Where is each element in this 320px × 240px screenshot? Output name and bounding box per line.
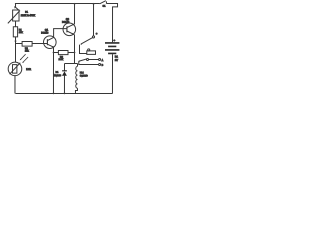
wire pot to R1	[15, 21, 17, 27]
node emitter/R3 right	[74, 52, 76, 54]
wire tee to diode and coil	[64, 62, 77, 64]
svg-text:BC148: BC148	[62, 22, 70, 24]
LDR	[8, 62, 22, 93]
svg-text:BC148: BC148	[41, 32, 49, 34]
wire Q1 collector to Q2 base	[54, 29, 67, 38]
svg-text:C: C	[96, 33, 98, 35]
svg-text:A: A	[102, 59, 104, 62]
wire contact common from rail	[93, 4, 95, 36]
node divider	[15, 40, 17, 42]
svg-text:10K: 10K	[19, 32, 23, 34]
relay coil RL1	[75, 66, 77, 93]
wire node to LDR	[14, 41, 16, 62]
wire R2 to Q1 base	[32, 42, 47, 44]
resistor R1	[13, 27, 17, 37]
relay contact blade 2	[79, 59, 87, 61]
wire Q1 emitter down to ground	[52, 47, 54, 93]
light arrow 2	[23, 57, 28, 62]
terminal A	[99, 59, 101, 61]
svg-text:S1: S1	[103, 6, 106, 8]
node collector rail	[74, 3, 76, 5]
transistor Q1	[44, 36, 57, 49]
contact fixed circle 1	[92, 36, 94, 38]
wire pivot 1	[79, 45, 86, 54]
svg-text:Q1: Q1	[45, 30, 49, 32]
wire R1 bottom to node	[15, 37, 17, 41]
transistor Q2	[63, 23, 76, 36]
node diode ground	[64, 92, 66, 94]
resistor R2	[22, 41, 32, 46]
contact block box	[87, 51, 96, 55]
wire node to R3	[53, 51, 58, 53]
svg-text:6V,1C/O: 6V,1C/O	[80, 75, 88, 77]
terminal B	[99, 64, 101, 66]
switch S1 blade	[100, 1, 106, 4]
wire Q2 collector to rail	[73, 4, 74, 25]
node emitter/R3	[53, 52, 55, 54]
svg-text:LDR: LDR	[26, 69, 31, 71]
svg-text:B: B	[102, 65, 104, 67]
node contact rail	[93, 3, 95, 5]
svg-text:RL1: RL1	[80, 72, 85, 74]
wire Q2 emitter down	[73, 34, 74, 63]
wire top rail right to battery	[106, 4, 117, 43]
svg-text:1N4148: 1N4148	[54, 75, 62, 77]
wire R3 right to emitter line	[68, 52, 75, 54]
potentiometer P1	[8, 3, 20, 23]
wire node to R2	[16, 41, 23, 43]
wire row A	[88, 59, 98, 61]
svg-text:D1: D1	[56, 72, 60, 74]
svg-text:Q2: Q2	[66, 19, 70, 21]
svg-text:6V: 6V	[115, 59, 118, 62]
circle on box	[88, 49, 90, 51]
battery B1	[105, 43, 119, 94]
light arrow 1	[20, 54, 25, 59]
resistor R3	[58, 50, 68, 54]
diode D1	[62, 71, 67, 94]
wire bottom rail	[15, 92, 112, 94]
relay contact blade 1	[81, 38, 93, 45]
wire pivot 2 and row B	[79, 61, 99, 64]
wire top rail left	[15, 2, 100, 4]
svg-text:2.2K: 2.2K	[59, 59, 64, 61]
svg-text:+: +	[114, 39, 116, 42]
svg-text:220K & 470K: 220K & 470K	[21, 14, 35, 17]
svg-text:10K: 10K	[25, 50, 29, 52]
node at ground rail	[53, 92, 55, 94]
switch S1 contact tick	[105, 1, 107, 3]
contact fixed circle 2	[86, 59, 88, 61]
